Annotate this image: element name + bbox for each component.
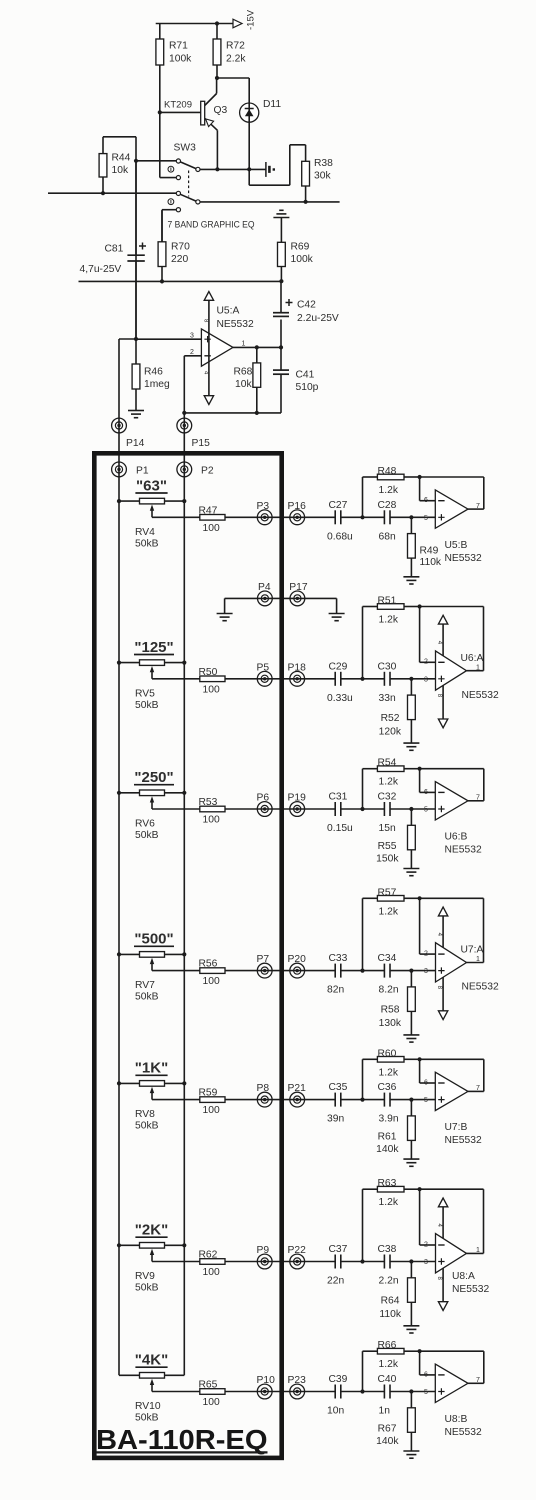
- diode D11: [240, 78, 282, 169]
- svg-text:P20: P20: [288, 954, 307, 965]
- svg-text:P9: P9: [257, 1245, 270, 1256]
- connector P21: [288, 1083, 307, 1107]
- svg-text:P14: P14: [126, 438, 145, 449]
- capacitor C35: [327, 1082, 348, 1125]
- wire ground row: [225, 597, 337, 599]
- svg-text:3: 3: [424, 968, 428, 975]
- svg-text:100: 100: [203, 1267, 220, 1278]
- svg-text:50kB: 50kB: [135, 1121, 159, 1132]
- svg-text:P4: P4: [258, 582, 271, 593]
- svg-text:50kB: 50kB: [135, 1413, 159, 1424]
- wire to op-amp: [390, 515, 435, 519]
- svg-text:-15V: -15V: [246, 9, 257, 30]
- connector P3: [257, 501, 273, 525]
- svg-text:P6: P6: [257, 793, 270, 804]
- ground right: [329, 598, 345, 620]
- connector P20: [288, 954, 307, 978]
- svg-text:1.2k: 1.2k: [379, 615, 399, 626]
- svg-text:100: 100: [203, 976, 220, 987]
- resistor R61: [376, 1100, 415, 1160]
- resistor R67: [376, 1392, 415, 1452]
- svg-text:"63": "63": [136, 477, 167, 494]
- svg-text:C39: C39: [329, 1374, 348, 1385]
- svg-text:R69: R69: [291, 242, 310, 253]
- resistor R51: [363, 596, 422, 679]
- capacitor C36: [378, 1082, 399, 1125]
- battery cell: [266, 162, 275, 177]
- svg-text:P18: P18: [288, 662, 307, 673]
- capacitor C28: [378, 500, 397, 543]
- capacitor C37: [327, 1244, 348, 1287]
- ground: [403, 743, 419, 750]
- wire band node: [341, 969, 385, 973]
- svg-text:R65: R65: [199, 1380, 218, 1391]
- resistor R71: [156, 24, 192, 113]
- wire band: [225, 516, 335, 518]
- svg-text:D11: D11: [263, 99, 281, 110]
- svg-text:3: 3: [424, 676, 428, 683]
- resistor R57: [363, 887, 422, 970]
- wire to op-amp: [390, 677, 435, 681]
- wire feedback U5A: [182, 356, 281, 415]
- svg-text:P17: P17: [289, 582, 308, 593]
- svg-text:R60: R60: [378, 1048, 397, 1059]
- svg-text:8.2n: 8.2n: [379, 985, 399, 996]
- op-amp U6:B: [420, 769, 484, 856]
- svg-text:0.33u: 0.33u: [327, 693, 353, 704]
- wire to op-amp: [390, 1098, 435, 1102]
- svg-text:R64: R64: [381, 1296, 400, 1307]
- connector P8: [257, 1083, 273, 1107]
- resistor R47: [152, 505, 225, 534]
- svg-text:82n: 82n: [327, 985, 344, 996]
- connector P14: [112, 339, 145, 451]
- svg-text:R62: R62: [199, 1250, 218, 1261]
- resistor R44: [99, 137, 136, 193]
- svg-text:C29: C29: [329, 661, 348, 672]
- capacitor C42: [273, 281, 339, 347]
- svg-text:RV9: RV9: [135, 1271, 155, 1282]
- resistor R69: [278, 242, 314, 282]
- svg-text:100: 100: [203, 523, 220, 534]
- svg-text:P1: P1: [136, 466, 149, 477]
- svg-text:R38: R38: [314, 158, 333, 169]
- resistor R38: [302, 145, 333, 202]
- svg-text:Q3: Q3: [214, 105, 228, 116]
- svg-text:1.2k: 1.2k: [379, 1067, 399, 1078]
- svg-text:R57: R57: [378, 887, 397, 898]
- svg-text:68n: 68n: [379, 531, 396, 542]
- svg-text:U8:B: U8:B: [445, 1414, 468, 1425]
- svg-text:C40: C40: [378, 1374, 397, 1385]
- svg-text:150k: 150k: [376, 854, 399, 865]
- svg-text:"2K": "2K": [135, 1222, 168, 1239]
- potentiometer RV6: [117, 790, 186, 841]
- potentiometer RV8: [117, 1081, 186, 1132]
- svg-text:2.2n: 2.2n: [379, 1276, 399, 1287]
- svg-text:R61: R61: [378, 1132, 397, 1143]
- svg-text:1.2k: 1.2k: [379, 1359, 399, 1370]
- svg-text:P10: P10: [257, 1375, 276, 1386]
- label band "125": [134, 639, 174, 656]
- svg-text:R68: R68: [234, 367, 253, 378]
- svg-text:RV6: RV6: [135, 819, 155, 830]
- capacitor C31: [327, 792, 353, 835]
- connector P19: [288, 793, 307, 817]
- node R72-D11: [215, 76, 249, 80]
- wire band node: [341, 1259, 385, 1263]
- svg-text:P23: P23: [288, 1375, 307, 1386]
- potentiometer RV5: [117, 660, 186, 711]
- capacitor C27: [327, 500, 353, 543]
- wire R44-SW3: [134, 137, 176, 339]
- connector P7: [257, 954, 273, 978]
- svg-text:"500": "500": [134, 931, 173, 948]
- resistor R52: [379, 679, 416, 743]
- svg-text:120k: 120k: [379, 726, 402, 737]
- resistor R72: [213, 24, 246, 79]
- svg-text:R71: R71: [169, 41, 188, 52]
- svg-text:C28: C28: [378, 500, 397, 511]
- connector P16: [288, 501, 307, 525]
- wire SW3 pole1 out: [200, 167, 266, 171]
- resistor R70: [158, 211, 190, 282]
- svg-text:10n: 10n: [327, 1406, 344, 1417]
- svg-text:R46: R46: [144, 367, 163, 378]
- wire input main: [48, 191, 176, 195]
- svg-text:C38: C38: [378, 1244, 397, 1255]
- svg-text:P21: P21: [288, 1083, 307, 1094]
- resistor R63: [363, 1178, 422, 1261]
- svg-text:100k: 100k: [169, 54, 192, 65]
- svg-text:33n: 33n: [379, 693, 396, 704]
- svg-text:NE5532: NE5532: [445, 553, 482, 564]
- label band "250": [134, 769, 174, 786]
- svg-text:KT209: KT209: [164, 100, 192, 111]
- label band "63": [135, 477, 167, 494]
- op-amp U7:A: [420, 898, 499, 1019]
- op-amp U8:A: [420, 1189, 490, 1310]
- wire to op-amp: [390, 1259, 435, 1263]
- svg-text:NE5532: NE5532: [452, 1284, 489, 1295]
- capacitor C32: [378, 792, 397, 835]
- svg-text:U6:A: U6:A: [461, 653, 484, 664]
- wire band node: [341, 1389, 385, 1393]
- resistor R65: [152, 1380, 225, 1409]
- ground: [403, 1326, 419, 1333]
- svg-text:15n: 15n: [379, 823, 396, 834]
- wire pin2: [184, 355, 201, 357]
- wire SW3 pole2 out: [200, 200, 340, 204]
- power -15V arrow: [233, 9, 257, 30]
- connector P15: [177, 413, 210, 451]
- potentiometer RV9: [117, 1243, 186, 1294]
- wire band: [225, 970, 335, 972]
- svg-text:U5:B: U5:B: [445, 540, 468, 551]
- svg-text:10k: 10k: [235, 379, 252, 390]
- wire to op-amp: [390, 1389, 435, 1393]
- svg-text:50kB: 50kB: [135, 1283, 159, 1294]
- svg-text:C31: C31: [329, 792, 348, 803]
- svg-text:SW3: SW3: [174, 143, 197, 154]
- svg-text:U7:B: U7:B: [445, 1122, 468, 1133]
- wire U5A out: [233, 345, 283, 349]
- resistor R66: [363, 1340, 422, 1391]
- ground: [403, 869, 419, 876]
- label band "1K": [135, 1060, 168, 1077]
- svg-text:NE5532: NE5532: [217, 319, 254, 330]
- svg-text:R52: R52: [381, 713, 400, 724]
- wire to op-amp: [390, 969, 435, 973]
- resistor R68: [234, 347, 261, 413]
- svg-text:100k: 100k: [291, 254, 314, 265]
- svg-text:P15: P15: [192, 438, 211, 449]
- svg-text:0.68u: 0.68u: [327, 531, 353, 542]
- resistor R53: [152, 797, 225, 826]
- svg-text:100: 100: [203, 815, 220, 826]
- wire band node: [341, 677, 385, 681]
- ground R46: [128, 411, 144, 418]
- resistor R54: [363, 758, 422, 809]
- label band "2K": [135, 1222, 168, 1239]
- svg-text:R54: R54: [378, 758, 397, 769]
- label band "500": [134, 931, 174, 948]
- svg-text:NE5532: NE5532: [445, 1427, 482, 1438]
- svg-text:130k: 130k: [379, 1018, 402, 1029]
- svg-text:P3: P3: [257, 501, 270, 512]
- op-amp U6:A: [420, 607, 499, 728]
- wire band: [225, 1261, 335, 1263]
- svg-text:U8:A: U8:A: [452, 1271, 475, 1282]
- wire band node: [341, 807, 385, 811]
- svg-text:50kB: 50kB: [135, 830, 159, 841]
- ground: [403, 577, 419, 584]
- svg-text:1n: 1n: [379, 1406, 391, 1417]
- wire base: [158, 100, 201, 115]
- svg-text:C36: C36: [378, 1082, 397, 1093]
- svg-text:BA-110R-EQ: BA-110R-EQ: [96, 1424, 268, 1455]
- svg-text:50kB: 50kB: [135, 538, 159, 549]
- svg-text:3.9n: 3.9n: [379, 1114, 399, 1125]
- resistor R60: [363, 1048, 422, 1099]
- wire right bus P2: [183, 451, 185, 1375]
- potentiometer RV10: [119, 1373, 184, 1424]
- svg-text:C34: C34: [378, 953, 397, 964]
- connector P10: [257, 1375, 276, 1399]
- svg-text:50kB: 50kB: [135, 992, 159, 1003]
- svg-text:C27: C27: [329, 500, 348, 511]
- svg-text:RV5: RV5: [135, 688, 155, 699]
- wire pin3: [134, 337, 202, 341]
- svg-text:C35: C35: [329, 1082, 348, 1093]
- resistor R50: [152, 667, 225, 696]
- wire band node: [341, 1098, 385, 1102]
- label BA-110R-EQ: [96, 1424, 268, 1455]
- svg-text:RV10: RV10: [135, 1401, 161, 1412]
- svg-text:3: 3: [424, 1259, 428, 1266]
- svg-text:R58: R58: [381, 1005, 400, 1016]
- svg-text:"1K": "1K": [135, 1060, 168, 1077]
- svg-text:2: 2: [190, 349, 194, 356]
- svg-text:110k: 110k: [420, 557, 442, 568]
- resistor R56: [152, 959, 225, 988]
- svg-text:P19: P19: [288, 793, 307, 804]
- svg-text:220: 220: [171, 254, 188, 265]
- connector P1: [112, 462, 149, 477]
- svg-text:5: 5: [424, 1389, 428, 1396]
- svg-text:5: 5: [424, 1097, 428, 1104]
- label 7-band: [168, 220, 255, 230]
- op-amp U7:B: [420, 1059, 484, 1146]
- svg-text:C42: C42: [297, 300, 316, 311]
- wire -15V feed: [156, 21, 233, 25]
- capacitor C33: [327, 953, 348, 996]
- svg-text:30k: 30k: [314, 171, 331, 182]
- wire band: [225, 678, 335, 680]
- capacitor C41: [273, 347, 319, 413]
- svg-text:140k: 140k: [376, 1144, 399, 1155]
- resistor R59: [152, 1088, 225, 1117]
- svg-text:P2: P2: [201, 466, 214, 477]
- svg-text:"250": "250": [134, 769, 173, 786]
- svg-text:110k: 110k: [379, 1309, 401, 1320]
- svg-text:22n: 22n: [327, 1276, 344, 1287]
- svg-text:39n: 39n: [327, 1114, 344, 1125]
- svg-text:2.2k: 2.2k: [226, 54, 246, 65]
- capacitor C29: [327, 661, 353, 704]
- svg-text:1.2k: 1.2k: [379, 906, 399, 917]
- svg-text:C30: C30: [378, 661, 397, 672]
- svg-text:100: 100: [203, 1397, 220, 1408]
- svg-text:"125": "125": [134, 639, 173, 656]
- svg-text:R67: R67: [378, 1424, 397, 1435]
- wire left bus P1: [118, 451, 120, 1375]
- connector P6: [257, 793, 273, 817]
- wire band: [225, 1391, 335, 1393]
- switch SW3: [160, 112, 200, 241]
- EQ module box: [94, 453, 281, 1458]
- connector P17: [289, 582, 308, 606]
- svg-text:P7: P7: [257, 954, 270, 965]
- connector P4: [258, 582, 273, 606]
- capacitor C40: [378, 1374, 397, 1417]
- svg-text:R47: R47: [199, 505, 218, 516]
- svg-text:NE5532: NE5532: [445, 1135, 482, 1146]
- wire to op-amp: [390, 807, 435, 811]
- connector P23: [288, 1375, 307, 1399]
- svg-text:2.2u-25V: 2.2u-25V: [297, 313, 339, 324]
- svg-text:R56: R56: [199, 959, 218, 970]
- svg-text:R53: R53: [199, 797, 218, 808]
- capacitor C38: [378, 1244, 399, 1287]
- svg-text:U6:B: U6:B: [445, 832, 468, 843]
- svg-text:100: 100: [203, 684, 220, 695]
- svg-text:U7:A: U7:A: [461, 945, 484, 956]
- svg-text:5: 5: [424, 515, 428, 522]
- svg-text:NE5532: NE5532: [462, 690, 499, 701]
- svg-text:R44: R44: [112, 153, 131, 164]
- capacitor C30: [378, 661, 397, 704]
- transistor Q3: [201, 78, 228, 169]
- wire band node: [341, 515, 385, 519]
- svg-text:RV4: RV4: [135, 527, 155, 538]
- svg-text:510p: 510p: [296, 382, 319, 393]
- svg-text:1: 1: [242, 340, 246, 347]
- ground left: [217, 598, 233, 620]
- resistor R48: [363, 466, 422, 517]
- capacitor C81: [80, 243, 147, 276]
- wire band: [225, 1099, 335, 1101]
- svg-text:1meg: 1meg: [144, 379, 170, 390]
- svg-text:C81: C81: [105, 244, 124, 255]
- svg-text:5: 5: [424, 807, 428, 814]
- potentiometer RV4: [117, 498, 186, 549]
- connector P9: [257, 1245, 273, 1269]
- svg-text:R63: R63: [378, 1178, 397, 1189]
- svg-text:RV8: RV8: [135, 1109, 155, 1120]
- svg-text:R51: R51: [378, 596, 397, 607]
- svg-text:P22: P22: [288, 1245, 307, 1256]
- svg-text:C37: C37: [329, 1244, 348, 1255]
- svg-text:0.15u: 0.15u: [327, 823, 353, 834]
- svg-text:P8: P8: [257, 1083, 270, 1094]
- wire band: [225, 808, 335, 810]
- svg-text:R50: R50: [199, 667, 218, 678]
- capacitor C34: [378, 953, 399, 996]
- connector P2: [177, 462, 214, 477]
- resistor R55: [376, 809, 415, 869]
- svg-text:10k: 10k: [112, 165, 129, 176]
- svg-text:R66: R66: [378, 1340, 397, 1351]
- connector P18: [288, 662, 307, 686]
- svg-text:100: 100: [203, 1105, 220, 1116]
- wire to R38: [249, 145, 305, 185]
- wire bottom rail: [79, 279, 284, 283]
- svg-text:1.2k: 1.2k: [379, 777, 399, 788]
- svg-text:"4K": "4K": [135, 1352, 168, 1369]
- svg-text:R59: R59: [199, 1088, 218, 1099]
- svg-text:140k: 140k: [376, 1436, 399, 1447]
- svg-text:R72: R72: [226, 41, 245, 52]
- svg-text:1.2k: 1.2k: [379, 485, 399, 496]
- svg-text:C41: C41: [296, 370, 315, 381]
- ground: [403, 1451, 419, 1458]
- resistor R62: [152, 1250, 225, 1279]
- svg-text:7 BAND GRAPHIC EQ: 7 BAND GRAPHIC EQ: [168, 220, 255, 230]
- resistor R46: [132, 339, 170, 410]
- label band "4K": [135, 1352, 168, 1369]
- svg-text:P16: P16: [288, 501, 307, 512]
- svg-text:3: 3: [190, 332, 194, 339]
- ground: [403, 1035, 419, 1042]
- op-amp U5:A: [190, 292, 254, 405]
- svg-text:NE5532: NE5532: [462, 982, 499, 993]
- capacitor C39: [327, 1374, 348, 1417]
- svg-text:U5:A: U5:A: [217, 306, 240, 317]
- svg-text:R55: R55: [378, 841, 397, 852]
- resistor R49: [408, 517, 442, 577]
- connector P22: [288, 1245, 307, 1269]
- connector P5: [257, 662, 273, 686]
- svg-text:C32: C32: [378, 792, 397, 803]
- op-amp U8:B: [420, 1351, 484, 1438]
- ground: [403, 1159, 419, 1166]
- svg-text:50kB: 50kB: [135, 700, 159, 711]
- ground above R69: [273, 210, 289, 242]
- svg-text:R48: R48: [378, 466, 397, 477]
- svg-text:NE5532: NE5532: [445, 845, 482, 856]
- potentiometer RV7: [117, 952, 186, 1003]
